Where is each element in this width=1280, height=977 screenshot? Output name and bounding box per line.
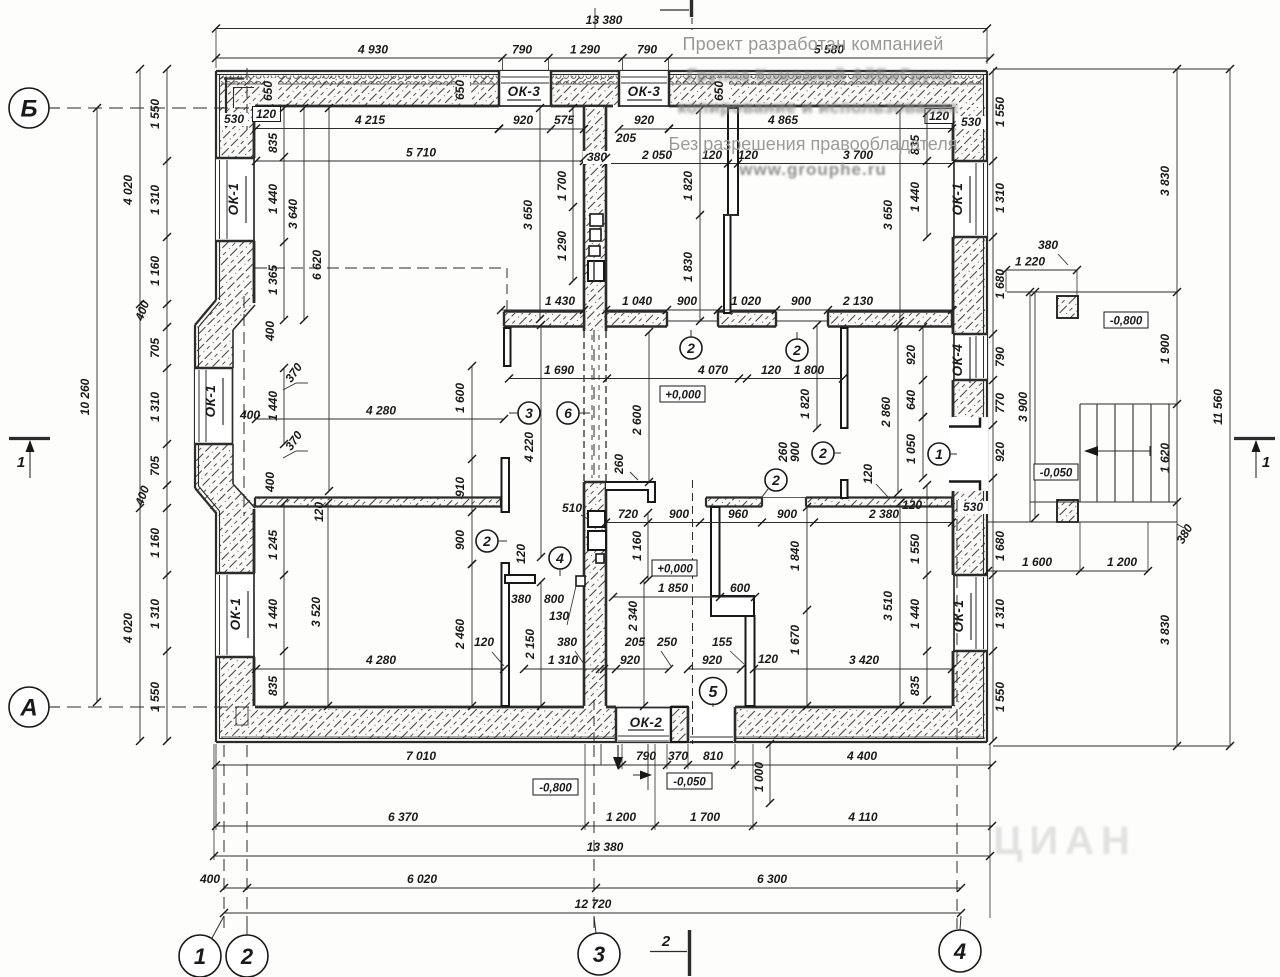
- svg-text:400: 400: [263, 321, 277, 342]
- svg-text:+0,000: +0,000: [657, 564, 693, 576]
- label 400 rot lower: [263, 472, 277, 493]
- svg-text:530: 530: [224, 112, 244, 126]
- svg-text:ОК-2: ОК-2: [630, 715, 663, 730]
- section marker 1 right: [1234, 439, 1275, 479]
- circled 4: [549, 547, 571, 576]
- dimension 13380 top: [212, 8, 991, 68]
- svg-text:1 000: 1 000: [752, 762, 766, 792]
- label 120 bath door: [474, 635, 504, 666]
- axis B dash-line: [46, 107, 254, 109]
- labels 205 920 250: [600, 635, 677, 673]
- elevation -0.050 bottom: [667, 773, 712, 789]
- svg-text:копирование и использование: копирование и использование: [678, 97, 959, 117]
- svg-text:3 830: 3 830: [1158, 166, 1172, 196]
- svg-text:2 380: 2 380: [868, 507, 899, 521]
- svg-text:4 280: 4 280: [365, 653, 396, 667]
- partition lower jog: [711, 596, 754, 616]
- label 120 topleft: [253, 107, 281, 122]
- dimension 1220-380: [1002, 238, 1081, 296]
- window OK-1 left upper: [216, 158, 255, 241]
- svg-text:900: 900: [777, 507, 797, 521]
- porch left line: [1029, 292, 1031, 522]
- right top horizontal line: [993, 68, 1230, 70]
- porch pillar bottom: [1057, 500, 1078, 522]
- dimension row y826: [212, 810, 996, 830]
- svg-text:1 020: 1 020: [731, 294, 761, 308]
- svg-text:12 720: 12 720: [575, 897, 612, 911]
- svg-text:1 290: 1 290: [555, 231, 569, 261]
- svg-text:6: 6: [564, 405, 572, 421]
- label 400 rot upper: [263, 321, 277, 342]
- svg-text:575: 575: [554, 113, 574, 127]
- svg-text:1 700: 1 700: [690, 810, 720, 824]
- extension lines bottom: [214, 744, 990, 918]
- label 380 porch lower: [1173, 522, 1195, 547]
- circled 5: [700, 678, 727, 709]
- window OK-4 right: [953, 334, 987, 380]
- dimension 10260: [78, 104, 101, 706]
- dimension 3520: [309, 499, 332, 710]
- bath stub wall: [505, 575, 535, 583]
- dimension 2600: [630, 328, 653, 486]
- dimension 3900: [1016, 288, 1039, 522]
- watermark blurred company: [687, 65, 953, 85]
- axis circle 4: [939, 916, 981, 972]
- svg-text:720: 720: [618, 507, 638, 521]
- svg-text:1 040: 1 040: [622, 294, 652, 308]
- label 120 wall3: [861, 464, 888, 497]
- svg-text:205: 205: [624, 635, 645, 649]
- circled 3: [509, 402, 540, 424]
- label OK-2: [628, 715, 664, 730]
- elevation -0.050 porch: [1034, 464, 1078, 480]
- svg-text:4 215: 4 215: [354, 113, 385, 127]
- flue blocks upper: [588, 214, 604, 281]
- svg-text:400: 400: [263, 472, 277, 493]
- flue wall lower outline: [584, 482, 606, 706]
- watermark project line: [683, 34, 944, 54]
- window OK-3 top second: [619, 71, 669, 107]
- dimension 920 door5: [684, 653, 745, 673]
- svg-text:120: 120: [256, 107, 276, 121]
- axis circle 2: [226, 916, 268, 977]
- svg-text:6 620: 6 620: [310, 250, 324, 280]
- svg-text:1 680: 1 680: [993, 269, 1007, 299]
- svg-text:А: А: [19, 695, 37, 722]
- svg-text:4 220: 4 220: [522, 432, 536, 463]
- svg-text:1 310: 1 310: [148, 599, 162, 629]
- svg-text:705: 705: [148, 338, 162, 358]
- svg-text:120: 120: [761, 363, 781, 377]
- label OK-1 left upper: [226, 176, 246, 223]
- axis 2 dashes top: [246, 68, 248, 130]
- dimension row top: [212, 43, 994, 72]
- svg-text:10 260: 10 260: [78, 378, 92, 415]
- entry arrow down: [613, 745, 623, 770]
- label 370 upper: [282, 360, 308, 390]
- svg-text:1 310: 1 310: [148, 185, 162, 215]
- svg-text:835: 835: [908, 676, 922, 696]
- svg-text:900: 900: [669, 507, 689, 521]
- svg-text:4 110: 4 110: [847, 810, 877, 824]
- svg-text:Без разрешения правообладателя: Без разрешения правообладателя: [669, 134, 958, 154]
- svg-text:120: 120: [758, 652, 778, 666]
- partition hall-bath upper pier: [502, 458, 510, 512]
- dimension 4220: [522, 321, 545, 561]
- svg-text:1 290: 1 290: [570, 43, 600, 57]
- partition lower right vertical: [746, 616, 755, 706]
- circled 2 below room2: [680, 330, 702, 359]
- label OK-1 left lower: [228, 591, 248, 638]
- labels 380 1310 bath: [520, 635, 604, 673]
- svg-text:4: 4: [953, 939, 966, 964]
- section marker 2 bottom: [650, 930, 690, 976]
- svg-text:1 680: 1 680: [993, 531, 1007, 561]
- dimension 1600-910-900: [453, 362, 476, 568]
- pier between OK-2 and door: [671, 707, 688, 742]
- svg-text:920: 920: [993, 442, 1007, 462]
- dimension 1850-600: [609, 581, 759, 601]
- partition room3 vertical: [841, 328, 848, 428]
- svg-text:3 520: 3 520: [309, 597, 323, 627]
- svg-text:1 310: 1 310: [548, 653, 578, 667]
- svg-text:5: 5: [709, 684, 719, 701]
- bath step: [576, 576, 585, 586]
- dimension 1700-1290 flue: [555, 104, 577, 285]
- svg-text:400: 400: [199, 872, 220, 886]
- label 530 right band: [959, 500, 988, 514]
- circled 2 mid2: [762, 469, 787, 497]
- svg-text:4 400: 4 400: [846, 749, 877, 763]
- elevation -0.800 bottom: [533, 779, 578, 795]
- dimension 835-1440 right top: [908, 109, 931, 241]
- svg-text:2: 2: [240, 944, 254, 969]
- porch step lines bottom: [601, 744, 648, 790]
- svg-text:-0,050: -0,050: [1040, 468, 1073, 480]
- dimension 1550-1440-835 right: [908, 481, 931, 704]
- svg-text:120: 120: [902, 498, 922, 512]
- dimension 1000 porch: [752, 740, 774, 807]
- svg-text:ОК-1: ОК-1: [226, 183, 241, 216]
- dimension 6620: [310, 104, 333, 495]
- dimension 4280 room1: [252, 404, 508, 424]
- svg-text:4 070: 4 070: [697, 363, 728, 377]
- svg-text:ЦИАН: ЦИАН: [993, 819, 1137, 863]
- label 120 wall5: [758, 652, 778, 666]
- svg-text:7 010: 7 010: [406, 749, 436, 763]
- svg-text:790: 790: [637, 43, 657, 57]
- svg-text:1 700: 1 700: [555, 171, 569, 201]
- svg-text:510: 510: [562, 501, 582, 515]
- svg-text:960: 960: [728, 507, 748, 521]
- svg-text:920: 920: [620, 653, 640, 667]
- svg-text:400: 400: [239, 408, 260, 422]
- entry arrow right: [633, 771, 652, 780]
- svg-text:2: 2: [482, 533, 491, 549]
- svg-text:2 460: 2 460: [453, 619, 467, 650]
- interior wall band middle: [504, 312, 952, 327]
- svg-text:1 160: 1 160: [148, 256, 162, 286]
- svg-text:4 930: 4 930: [357, 43, 388, 57]
- dimension 2460: [453, 560, 476, 710]
- flue top step wall: [606, 482, 655, 502]
- svg-text:5 710: 5 710: [406, 146, 436, 160]
- svg-text:Проект разработан компанией: Проект разработан компанией: [683, 34, 944, 54]
- dimension row y522: [602, 507, 956, 527]
- svg-text:770: 770: [993, 393, 1007, 413]
- svg-text:2 130: 2 130: [842, 294, 873, 308]
- svg-text:2: 2: [818, 445, 827, 461]
- dimension 1820 room3wall: [798, 321, 821, 432]
- axis circle 3: [578, 916, 620, 975]
- dimension row y888: [199, 872, 965, 892]
- corner rebate top-left: [224, 77, 254, 127]
- svg-text:ОК-3: ОК-3: [508, 84, 541, 99]
- svg-text:1 600: 1 600: [453, 383, 467, 413]
- watermark no permission: [669, 134, 958, 154]
- svg-text:1 550: 1 550: [993, 97, 1007, 127]
- flue wall lower hatch: [584, 482, 606, 706]
- dimension 12720 bottom: [220, 897, 965, 917]
- svg-text:900: 900: [791, 294, 811, 308]
- svg-text:ОК-1: ОК-1: [950, 183, 965, 216]
- svg-text:ОК-1: ОК-1: [228, 598, 243, 631]
- svg-text:11 560: 11 560: [1211, 389, 1225, 425]
- svg-text:1 440: 1 440: [266, 599, 280, 629]
- svg-text:1 690: 1 690: [544, 363, 574, 377]
- window OK-1 right lower: [953, 575, 987, 651]
- flue blocks lower: [588, 511, 606, 563]
- svg-text:3: 3: [593, 942, 605, 967]
- label OK-1 right upper: [950, 176, 970, 223]
- dimension 3830-1900-1620-3830: [1158, 65, 1181, 750]
- window OK-1 left lower: [216, 573, 255, 657]
- svg-text:1: 1: [17, 454, 25, 471]
- svg-text:120: 120: [861, 464, 875, 484]
- section marker 1 left: [9, 439, 50, 479]
- svg-text:1 310: 1 310: [993, 599, 1007, 629]
- dimension 4215: [252, 113, 503, 133]
- svg-text:790: 790: [512, 43, 532, 57]
- label 155: [712, 635, 744, 664]
- svg-text:155: 155: [712, 635, 732, 649]
- dimension 2860: [879, 323, 902, 497]
- circled 6: [557, 402, 590, 424]
- svg-text:4 020: 4 020: [121, 613, 135, 644]
- niche bottom wall: [236, 707, 248, 725]
- label 260 rot hall: [612, 454, 638, 480]
- partition room2 upper: [724, 108, 738, 313]
- svg-text:2 600: 2 600: [630, 405, 644, 436]
- label OK-3 first: [507, 84, 541, 100]
- top exterior wall: [216, 71, 987, 106]
- svg-text:810: 810: [703, 749, 723, 763]
- svg-text:4: 4: [555, 550, 564, 566]
- svg-text:650: 650: [261, 81, 275, 101]
- label 205: [615, 131, 636, 145]
- interior wall band lower: [255, 498, 952, 507]
- dimension 2150: [523, 578, 545, 710]
- svg-text:2: 2: [686, 340, 695, 356]
- door axis dashed bottom: [692, 480, 694, 744]
- svg-text:1 670: 1 670: [788, 625, 802, 655]
- dimension 3510: [881, 499, 904, 710]
- svg-text:1 850: 1 850: [658, 581, 688, 595]
- svg-text:1 310: 1 310: [148, 392, 162, 422]
- svg-text:1: 1: [1262, 454, 1270, 471]
- svg-text:380: 380: [1038, 238, 1058, 252]
- svg-text:www.grouphe.ru: www.grouphe.ru: [738, 160, 886, 179]
- flue wall upper hatch: [584, 107, 606, 331]
- svg-text:6 370: 6 370: [388, 810, 418, 824]
- dimension 3650 left of flue: [521, 104, 544, 323]
- svg-text:6 300: 6 300: [757, 872, 787, 886]
- svg-text:1 365: 1 365: [266, 265, 280, 295]
- label 120 partition low: [312, 502, 326, 522]
- axis 2 dashes bay: [243, 296, 245, 516]
- label 650 top-mid: [453, 77, 470, 103]
- svg-text:900: 900: [453, 530, 467, 550]
- svg-text:910: 910: [453, 477, 467, 497]
- svg-text:1 310: 1 310: [993, 183, 1007, 213]
- axis 3 dashed bottom: [593, 745, 595, 932]
- svg-text:1 440: 1 440: [266, 391, 280, 421]
- svg-text:1: 1: [194, 944, 206, 969]
- dimension 3650 room3: [881, 106, 904, 325]
- door threshold middle-2: [762, 321, 828, 498]
- axis 4 dashed: [956, 500, 958, 929]
- label 530 topleft: [220, 112, 248, 126]
- svg-text:920: 920: [702, 653, 722, 667]
- label 380 flue: [580, 150, 611, 164]
- svg-text:+0,000: +0,000: [665, 390, 701, 402]
- svg-text:1 620: 1 620: [1158, 443, 1172, 473]
- svg-text:1: 1: [935, 446, 943, 462]
- svg-text:3 640: 3 640: [286, 199, 300, 229]
- svg-text:1 440: 1 440: [266, 184, 280, 214]
- svg-text:1 900: 1 900: [1158, 334, 1172, 364]
- svg-text:250: 250: [656, 635, 677, 649]
- dimension 1820-1830 room2: [681, 106, 704, 325]
- axis 3 dashed mid: [593, 330, 595, 482]
- dimension 2340: [626, 576, 648, 710]
- dimension 640-920 inner right: [904, 323, 927, 421]
- svg-text:1 820: 1 820: [681, 171, 695, 201]
- window OK-3 top first: [499, 71, 551, 107]
- svg-text:1 050: 1 050: [904, 434, 918, 464]
- label OK-3 second: [627, 84, 662, 100]
- svg-text:13 380: 13 380: [586, 13, 623, 27]
- svg-text:2: 2: [771, 472, 780, 488]
- axis circle A: [9, 687, 60, 727]
- svg-text:1 440: 1 440: [908, 599, 922, 629]
- svg-text:380: 380: [511, 592, 531, 606]
- label 120 above band: [902, 498, 922, 512]
- dimension 1160: [630, 509, 652, 584]
- svg-text:380: 380: [557, 635, 577, 649]
- dimension 3420: [750, 653, 956, 673]
- label 120 inner: [0, 0, 1, 1]
- dimension left fine chain: [148, 65, 171, 745]
- label 400 left lower: [132, 484, 152, 509]
- entrance door opening right: [949, 417, 988, 491]
- svg-text:ОК-3: ОК-3: [628, 84, 661, 99]
- section marker 2 top: [660, 0, 692, 30]
- label OK-4 right: [950, 337, 970, 383]
- elevation -0.800 porch: [1104, 312, 1148, 328]
- svg-text:1 550: 1 550: [908, 534, 922, 564]
- watermark blurred line2: [678, 97, 959, 117]
- svg-text:1 600: 1 600: [1022, 555, 1052, 569]
- svg-text:1 550: 1 550: [148, 99, 162, 129]
- dashed line hall vertical: [506, 268, 508, 311]
- exterior wall hatch: [219, 76, 985, 739]
- svg-text:530: 530: [963, 500, 983, 514]
- svg-text:705: 705: [148, 456, 162, 476]
- svg-text:2 860: 2 860: [879, 397, 893, 428]
- label 370 lower: [282, 428, 308, 458]
- svg-text:3 650: 3 650: [881, 200, 895, 230]
- dimension 4280 room lower: [252, 653, 508, 673]
- bay window wall outline: [195, 300, 255, 513]
- label 650 top-left: [261, 78, 278, 104]
- watermark site: [738, 160, 886, 179]
- svg-text:835: 835: [266, 133, 280, 153]
- stairs arrow: [1084, 446, 1150, 456]
- svg-text:120: 120: [312, 502, 326, 522]
- svg-text:Группа Компаний АйБиГрупп: Группа Компаний АйБиГрупп: [687, 65, 953, 85]
- svg-text:1 160: 1 160: [148, 528, 162, 558]
- label 400 bay mid: [239, 408, 260, 422]
- svg-text:1 840: 1 840: [788, 541, 802, 571]
- svg-text:1 830: 1 830: [681, 252, 695, 282]
- svg-text:900: 900: [788, 442, 802, 462]
- circled 1 entry: [928, 443, 957, 465]
- dimension 2050-row: [602, 148, 956, 168]
- dimension 11560: [1211, 65, 1234, 750]
- svg-text:790: 790: [636, 749, 656, 763]
- labels 260 900 rot: [776, 442, 802, 463]
- label 510: [562, 501, 588, 519]
- dashed ceiling line big room: [255, 267, 505, 269]
- svg-text:ОК-4: ОК-4: [950, 344, 965, 377]
- flue wall opening dashed: [584, 331, 606, 482]
- circled 2 below room3: [786, 332, 808, 361]
- axis 1 dashed bottom: [223, 745, 225, 933]
- svg-text:ОК-1: ОК-1: [951, 600, 966, 633]
- elevation +0.000 lower: [652, 560, 697, 576]
- svg-text:-0,800: -0,800: [1110, 316, 1143, 328]
- svg-text:6 020: 6 020: [407, 872, 437, 886]
- circled 2 mid1: [812, 442, 841, 464]
- svg-text:120: 120: [474, 635, 494, 649]
- stairs: [1080, 404, 1177, 502]
- svg-text:4 020: 4 020: [121, 175, 135, 206]
- dimension 1040-900-1020-900-2130: [602, 294, 956, 314]
- svg-text:790: 790: [993, 347, 1007, 367]
- svg-text:380: 380: [587, 150, 607, 164]
- svg-text:3 510: 3 510: [881, 591, 895, 621]
- dimension 5710: [252, 146, 588, 166]
- svg-text:ОК-1: ОК-1: [203, 385, 218, 418]
- svg-text:1 245: 1 245: [266, 530, 280, 560]
- dimension 1050: [904, 413, 927, 482]
- svg-text:800: 800: [544, 592, 564, 606]
- dimension row 1430-1040-900: [497, 294, 588, 314]
- partition room3 stub: [841, 480, 848, 498]
- right bottom horizontal line: [993, 745, 1230, 747]
- dimension 920 second: [615, 113, 673, 133]
